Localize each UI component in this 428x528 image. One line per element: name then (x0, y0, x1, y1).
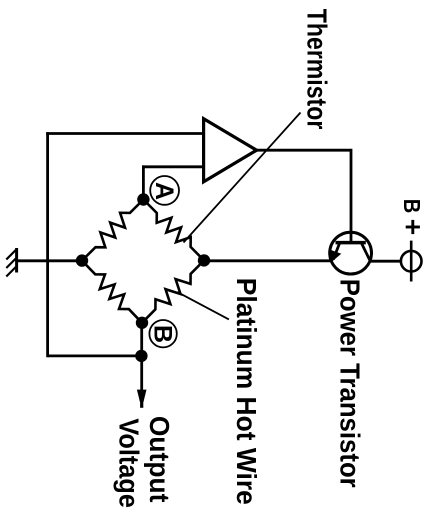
pointer line platinum hot wire label (177, 292, 229, 319)
node A junction dot (137, 193, 149, 205)
pointer line thermistor label (184, 113, 301, 243)
wire ground to bridge left node (18, 259, 83, 262)
resistor bridge left-top arm (82, 200, 143, 261)
svg-text:Power Transistor: Power Transistor (335, 279, 366, 488)
node left junction dot (76, 254, 88, 266)
svg-text:B: B (149, 325, 177, 343)
node A circle marker (150, 176, 179, 205)
output voltage arrow (137, 356, 147, 408)
op-amp U1 (204, 119, 257, 182)
wire node A up (142, 165, 145, 199)
svg-text:A: A (150, 182, 178, 200)
svg-text:Thermistor: Thermistor (301, 9, 332, 130)
svg-text:Voltage: Voltage (113, 418, 144, 508)
ground (6, 248, 16, 277)
wire node B down to junction (140, 323, 143, 356)
transistor Q1 power transistor (330, 232, 372, 274)
wire op-amp output (257, 150, 351, 242)
node B circle marker (149, 320, 176, 347)
wire node A to op-amp input (142, 165, 204, 168)
plus sign of B+ (406, 220, 420, 234)
node B junction dot (136, 317, 148, 329)
resistor thermistor (top-right arm) (143, 200, 204, 261)
svg-text:B: B (399, 199, 425, 214)
node right junction dot (198, 254, 210, 266)
node output junction dot (135, 350, 147, 362)
svg-text:Platinum Hot Wire: Platinum Hot Wire (231, 278, 262, 505)
wire op-amp inverting input loop (left vertical) (46, 132, 49, 357)
wire bridge right node to transistor emitter (204, 259, 332, 262)
resistor bridge left-bottom arm (82, 261, 142, 323)
svg-text:Output: Output (144, 416, 175, 503)
resistor platinum hot wire (bottom-right arm) (142, 260, 204, 322)
wire top feedback to op-amp input (46, 132, 203, 135)
wire bottom to node B junction (48, 354, 142, 357)
B+ terminal (401, 241, 422, 282)
wire transistor collector to B+ (370, 260, 401, 263)
